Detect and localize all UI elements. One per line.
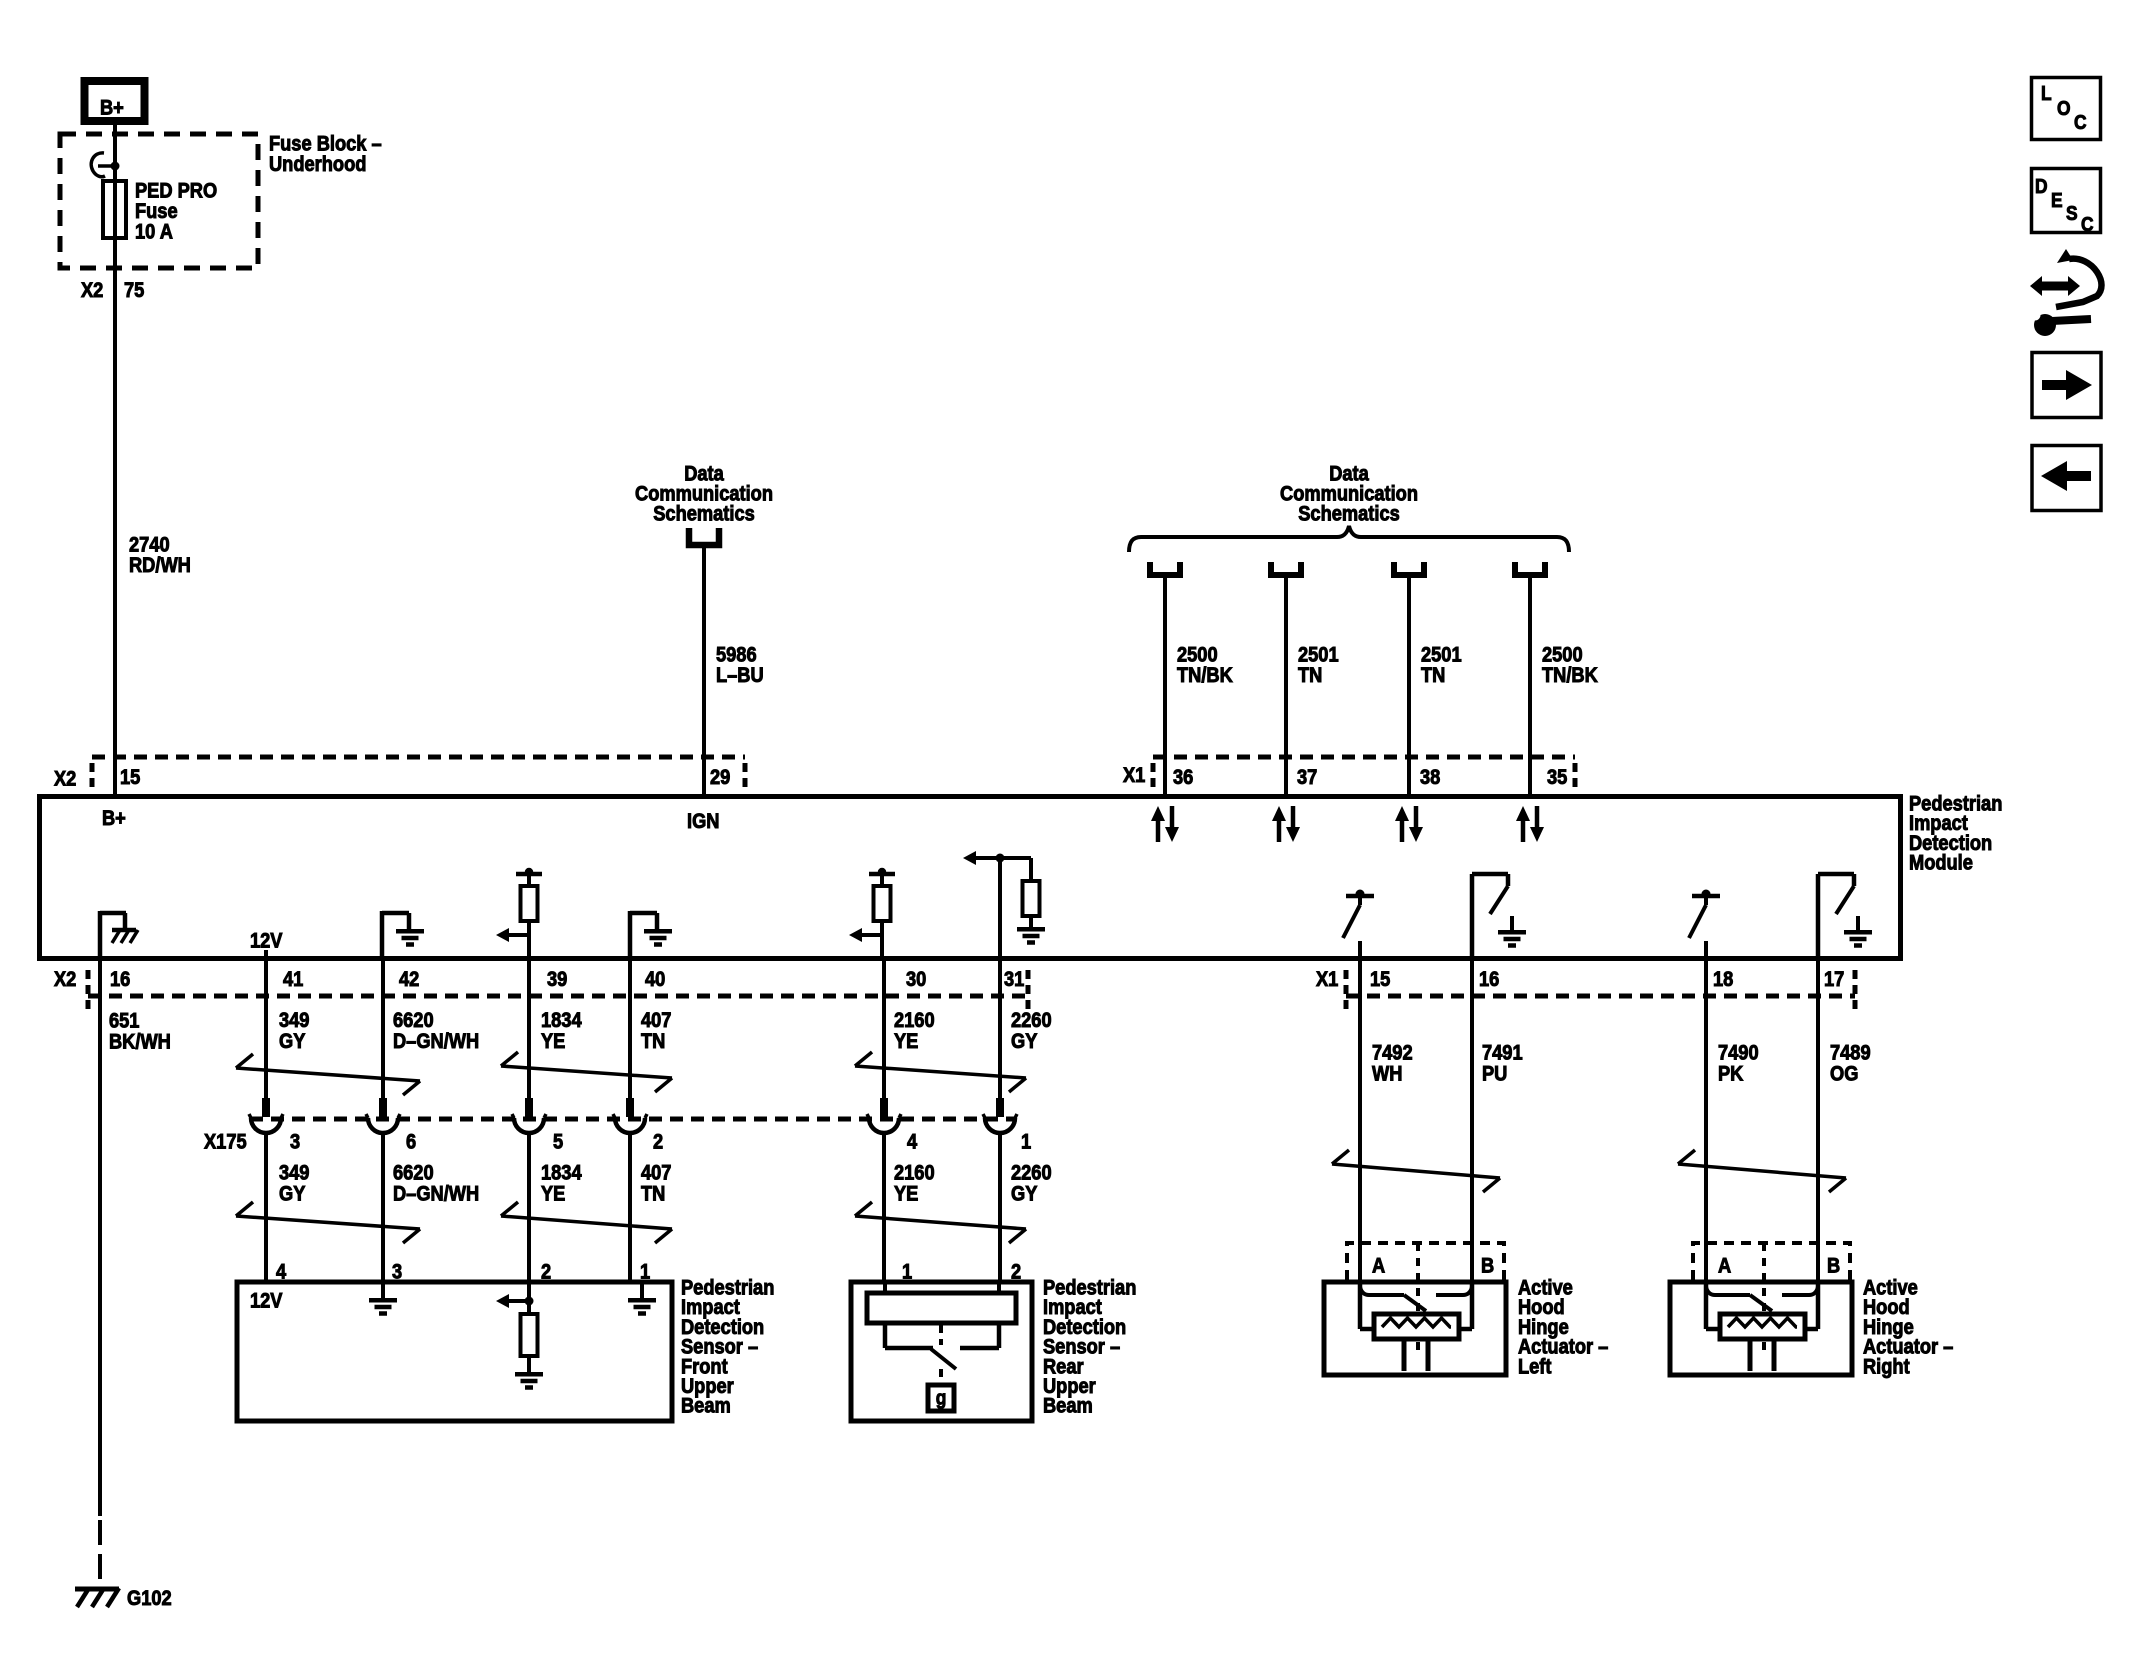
svg-text:X2: X2 (81, 279, 103, 302)
connector row X1 bottom (1346, 994, 1855, 999)
module internal ground (pin 40) (628, 911, 633, 956)
wire 2501 TN (1284, 577, 1288, 794)
X175 terminal pin 1 (996, 1098, 1004, 1117)
svg-text:C: C (2081, 213, 2094, 235)
wire 7489 OG (module to actuator) (1816, 958, 1820, 1282)
X175 terminal pin 3 (262, 1098, 270, 1117)
svg-text:B: B (1481, 1254, 1494, 1277)
svg-text:L–BU: L–BU (716, 664, 764, 687)
brace (1129, 526, 1569, 552)
module internal driver + ground (pin 17 X1) (1816, 874, 1821, 958)
X175 terminal pin 5 (525, 1098, 533, 1117)
power symbol B+ (85, 81, 145, 121)
svg-text:G102: G102 (127, 1587, 172, 1610)
wire 2160 YE (module to X175) (882, 958, 886, 1098)
module Pedestrian Impact Detection Module (40, 797, 1901, 959)
connector row X2 top (92, 755, 745, 760)
svg-text:12V: 12V (250, 1289, 283, 1312)
svg-text:X175: X175 (204, 1130, 247, 1153)
bidirectional data arrows (1277, 820, 1282, 842)
svg-text:30: 30 (906, 968, 926, 991)
fuse block dashed box (60, 134, 258, 268)
actuator connector dashed box (1693, 1243, 1850, 1280)
svg-text:Module: Module (1909, 851, 1973, 874)
svg-text:TN: TN (1298, 664, 1322, 687)
svg-text:4: 4 (907, 1130, 917, 1153)
wire B+ to fuse (113, 124, 117, 794)
module internal ground (pin 16) (98, 911, 103, 956)
svg-text:TN: TN (641, 1182, 665, 1205)
svg-text:B+: B+ (100, 96, 124, 119)
svg-text:7489: 7489 (1830, 1041, 1871, 1064)
svg-text:B+: B+ (102, 807, 126, 830)
wire 2500 TN/BK (1163, 577, 1167, 794)
module internal pull-up resistor (pin 30) (869, 872, 895, 877)
connector X175 (250, 1117, 1016, 1122)
wire 349 GY (module to X175) (264, 958, 268, 1098)
svg-text:E: E (2051, 189, 2063, 211)
svg-text:GY: GY (1011, 1030, 1037, 1053)
svg-text:B: B (1827, 1254, 1840, 1277)
svg-text:PU: PU (1482, 1062, 1507, 1085)
wire 7490 PK (module to actuator) (1704, 958, 1708, 1282)
svg-text:X2: X2 (54, 968, 76, 991)
svg-text:39: 39 (547, 968, 567, 991)
svg-text:3: 3 (290, 1130, 300, 1153)
off-page connector IGN data (689, 528, 719, 545)
svg-text:TN: TN (641, 1030, 665, 1053)
svg-text:1: 1 (1021, 1130, 1031, 1153)
Pedestrian Impact Detection Sensor Rear Upper Beam (851, 1282, 1032, 1421)
module internal 12V (pin 41) (264, 950, 268, 956)
svg-text:TN/BK: TN/BK (1177, 664, 1234, 687)
svg-text:37: 37 (1297, 766, 1317, 789)
svg-text:2260: 2260 (1011, 1009, 1052, 1032)
module internal ground (pin 42) (380, 911, 385, 956)
svg-text:GY: GY (279, 1182, 305, 1205)
svg-text:YE: YE (541, 1182, 565, 1205)
svg-text:Left: Left (1518, 1355, 1552, 1378)
twisted pair marks lower (236, 1202, 253, 1216)
svg-text:1834: 1834 (541, 1161, 582, 1184)
svg-text:41: 41 (283, 968, 303, 991)
svg-text:YE: YE (541, 1030, 565, 1053)
Pedestrian Impact Detection Sensor Front Upper Beam (237, 1282, 672, 1421)
svg-text:42: 42 (399, 968, 419, 991)
svg-text:6: 6 (406, 1130, 416, 1153)
wire 7492 WH (module to actuator) (1358, 958, 1362, 1282)
fuse bus tap hook (91, 153, 105, 177)
svg-text:D: D (2035, 175, 2048, 197)
wire 6620 D–GN/WH (X175 to sensor) (381, 1132, 385, 1282)
module internal divider (pin 31) (975, 856, 1000, 860)
actuator internal squib circuit (1358, 1282, 1363, 1329)
junction dot (111, 162, 120, 171)
svg-text:TN: TN (1421, 664, 1445, 687)
svg-text:YE: YE (894, 1182, 918, 1205)
icon DESC (2032, 169, 2101, 233)
module internal pull-up resistor (pin 39) (516, 872, 542, 877)
svg-text:Schematics: Schematics (1298, 502, 1400, 525)
off-page connector pin 37 (1271, 562, 1301, 575)
X175 terminal pin 2 (626, 1098, 634, 1117)
svg-text:6620: 6620 (393, 1009, 434, 1032)
wire 7491 PU (module to actuator) (1470, 958, 1474, 1282)
connector row X1 top (1153, 755, 1575, 760)
svg-text:16: 16 (1479, 968, 1499, 991)
svg-text:75: 75 (124, 279, 144, 302)
svg-text:7490: 7490 (1718, 1041, 1759, 1064)
svg-text:40: 40 (645, 968, 665, 991)
wire 407 TN (module to X175) (628, 958, 632, 1098)
svg-text:35: 35 (1547, 766, 1567, 789)
svg-text:651: 651 (109, 1009, 140, 1032)
svg-text:2160: 2160 (894, 1161, 935, 1184)
svg-text:WH: WH (1372, 1062, 1402, 1085)
svg-text:Beam: Beam (681, 1395, 731, 1418)
twisted pair marks (236, 1054, 253, 1068)
actuator connector dashed box (1347, 1243, 1504, 1280)
svg-text:L: L (2041, 82, 2052, 104)
svg-text:g: g (936, 1386, 947, 1408)
svg-text:6620: 6620 (393, 1161, 434, 1184)
svg-text:36: 36 (1173, 766, 1193, 789)
svg-text:Right: Right (1863, 1355, 1910, 1378)
svg-text:2260: 2260 (1011, 1161, 1052, 1184)
svg-text:5: 5 (553, 1130, 563, 1153)
off-page connector pin 36 (1150, 562, 1180, 575)
svg-text:YE: YE (894, 1030, 918, 1053)
svg-text:TN/BK: TN/BK (1542, 664, 1599, 687)
svg-text:1834: 1834 (541, 1009, 582, 1032)
svg-text:12V: 12V (250, 929, 283, 952)
svg-text:18: 18 (1713, 968, 1733, 991)
svg-text:10 A: 10 A (135, 220, 173, 243)
svg-text:15: 15 (1370, 968, 1390, 991)
svg-text:X1: X1 (1123, 764, 1145, 787)
wire 2260 GY (X175 to sensor) (998, 1132, 1002, 1282)
twisted pair marks actuators (1332, 1150, 1349, 1164)
sensor internal resistor to ground (pin 2) (508, 1299, 529, 1303)
svg-text:IGN: IGN (687, 810, 719, 833)
X175 terminal pin 6 (379, 1098, 387, 1117)
wire 1834 YE (X175 to sensor) (527, 1132, 531, 1282)
module internal driver (pin 18 X1) (1692, 894, 1720, 899)
bidirectional data arrows (1521, 820, 1526, 842)
svg-text:Underhood: Underhood (269, 153, 366, 176)
svg-text:Schematics: Schematics (653, 502, 755, 525)
wire 407 TN (X175 to sensor) (628, 1132, 632, 1282)
wire 1834 YE (module to X175) (527, 958, 531, 1098)
sensor element bar (867, 1293, 1016, 1323)
bidirectional data arrows (1156, 820, 1161, 842)
off-page connector pin 38 (1394, 562, 1424, 575)
svg-text:2: 2 (653, 1130, 663, 1153)
actuator internal squib circuit (1704, 1282, 1709, 1329)
svg-text:407: 407 (641, 1161, 672, 1184)
icon diagnostic (arrows + wrench) (2030, 276, 2080, 296)
fuse PED PRO 10A (103, 181, 126, 238)
svg-text:RD/WH: RD/WH (129, 554, 191, 577)
svg-text:349: 349 (279, 1009, 310, 1032)
svg-text:2160: 2160 (894, 1009, 935, 1032)
svg-text:D–GN/WH: D–GN/WH (393, 1030, 479, 1053)
wire 349 GY (X175 to sensor) (264, 1132, 268, 1282)
svg-text:7491: 7491 (1482, 1041, 1523, 1064)
svg-text:31: 31 (1004, 968, 1024, 991)
icon next arrow (2032, 353, 2101, 418)
X175 terminal pin 4 (880, 1098, 888, 1117)
svg-text:A: A (1372, 1254, 1385, 1277)
wire 2260 GY (module to X175) (998, 958, 1002, 1098)
module internal driver (pin 15 X1) (1346, 894, 1374, 899)
wire 2501 TN (1407, 577, 1411, 794)
actuator box (1670, 1282, 1852, 1375)
svg-text:Beam: Beam (1043, 1395, 1093, 1418)
sensor internal ground (pin 1) (640, 1284, 644, 1299)
svg-text:PK: PK (1718, 1062, 1744, 1085)
wire 2500 TN/BK (1528, 577, 1532, 794)
svg-text:29: 29 (710, 766, 730, 789)
sensor switch (883, 1323, 888, 1348)
svg-text:BK/WH: BK/WH (109, 1030, 171, 1053)
svg-text:C: C (2074, 111, 2087, 133)
wire 651 BK/WH to G102 (98, 958, 102, 1516)
icon back arrow (2032, 446, 2101, 511)
g-switch box (928, 1385, 954, 1411)
actuator box (1324, 1282, 1506, 1375)
svg-text:GY: GY (1011, 1182, 1037, 1205)
bidirectional data arrows (1400, 820, 1405, 842)
module internal driver + ground (pin 16 X1) (1470, 874, 1475, 958)
off-page connector pin 35 (1515, 562, 1545, 575)
svg-text:O: O (2057, 97, 2071, 119)
svg-text:38: 38 (1420, 766, 1440, 789)
icon LOC (2032, 78, 2101, 140)
ground G102 (75, 1587, 119, 1592)
wire 6620 D–GN/WH (module to X175) (381, 958, 385, 1098)
wire 2160 YE (X175 to sensor) (882, 1132, 886, 1282)
svg-text:OG: OG (1830, 1062, 1858, 1085)
svg-text:D–GN/WH: D–GN/WH (393, 1182, 479, 1205)
wire 5986 L-BU (702, 548, 706, 794)
svg-text:S: S (2066, 202, 2078, 224)
connector row X2 bottom (88, 994, 1028, 999)
svg-text:X2: X2 (54, 767, 76, 790)
svg-text:15: 15 (120, 766, 140, 789)
svg-text:GY: GY (279, 1030, 305, 1053)
svg-text:349: 349 (279, 1161, 310, 1184)
svg-text:407: 407 (641, 1009, 672, 1032)
svg-text:X1: X1 (1316, 968, 1338, 991)
svg-text:7492: 7492 (1372, 1041, 1413, 1064)
svg-text:A: A (1718, 1254, 1731, 1277)
svg-text:17: 17 (1824, 968, 1844, 991)
sensor internal ground (pin 3) (381, 1284, 385, 1299)
svg-text:16: 16 (110, 968, 130, 991)
